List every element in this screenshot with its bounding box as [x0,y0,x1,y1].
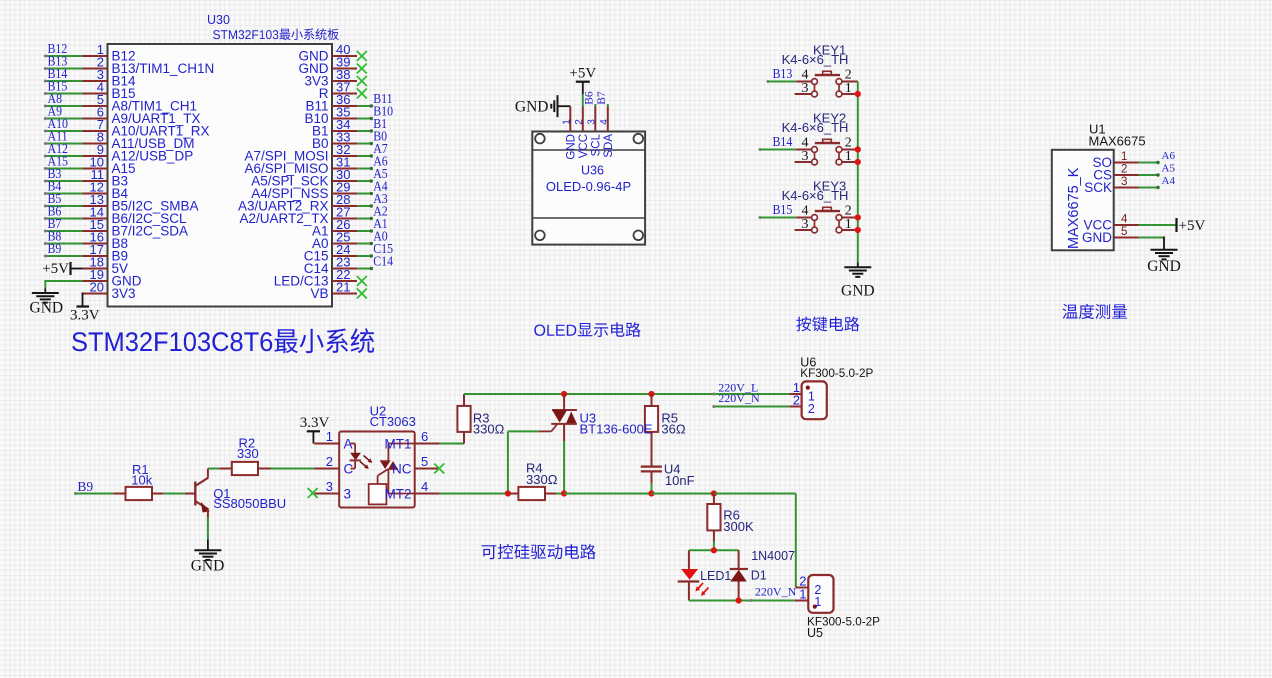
svg-text:3V3: 3V3 [112,286,136,301]
junction at R5 [648,391,654,397]
wire junction on key bus [855,227,861,233]
U30 pin 5 A8/TIM1_CH1 with net label A8 [44,90,197,113]
svg-text:VB: VB [310,286,328,301]
svg-text:3: 3 [802,149,809,164]
U30 pin 10 A15 with net label A15 [44,152,136,175]
U30 pin 26 A1 net label A1 [312,215,388,238]
junction D1 bottom [736,597,742,603]
opto-triac U2 CT3063 body [339,404,416,508]
svg-text:+5V: +5V [569,66,596,82]
svg-text:1: 1 [845,81,852,96]
svg-text:OLED-0.96-4P: OLED-0.96-4P [546,179,631,194]
key common wire to ground [844,82,871,277]
svg-text:3: 3 [344,486,352,501]
pushbutton KEY3 K4-6x6_TH [782,179,858,233]
junction R6 top [711,490,717,496]
section title 可控硅驱动电路 [482,544,596,559]
U36 pin 4 SDA [599,106,615,157]
schematic title STM32F103C8T6最小系统 [72,328,374,353]
svg-text:2: 2 [326,454,333,469]
U5 pin 1 stub [795,586,809,601]
LED LED1 [678,550,732,600]
U30 pin 12 B4 with net label B4 [44,177,129,200]
U36 pin 1 GND [561,106,577,159]
U2 internal triac and zero-cross box [369,444,415,505]
svg-text:MT1: MT1 [385,436,412,451]
U6 pin 2 net 220V_N [712,391,801,408]
net label B6 at U36 pin 3 [583,91,595,106]
U30 pin 20 3V3 with 3.3V power bar [70,280,136,324]
svg-text:D1: D1 [751,569,767,583]
U1 pin 1 SO net label A6 [1092,150,1175,170]
svg-text:KF300-5.0-2P: KF300-5.0-2P [800,366,873,380]
svg-text:330Ω: 330Ω [473,421,505,436]
section title 温度测量 [1062,304,1127,319]
svg-text:1: 1 [845,149,852,164]
U30 pin 8 A11/USB_DM with net label A11 [44,127,195,150]
svg-text:2: 2 [808,402,815,416]
svg-text:5: 5 [1121,226,1127,238]
svg-text:SS8050BBU: SS8050BBU [213,496,286,511]
junction U4 bottom [648,490,654,496]
wire main rail to U5 pin 2 [714,494,796,588]
diode D1 1N4007 [730,549,795,600]
U2 pin 2 C [314,454,353,476]
U30 pin 32 A7/SPI_MOSI net label A7 [244,140,388,163]
svg-text:A5: A5 [1162,163,1176,175]
svg-text:330: 330 [237,446,259,461]
svg-text:2: 2 [793,393,800,408]
svg-text:LED1: LED1 [700,569,731,583]
U30 pin 19 GND wire and ground symbol [30,267,142,317]
svg-text:3: 3 [326,479,333,494]
U30 pin 34 B1 net label B1 [312,115,387,138]
junction R4 right / U3 [561,490,567,496]
U30 pin 2 B13/TIM1_CH1N with net label B13 [44,52,214,75]
resistor R2 330 [208,436,314,476]
3.3V power port [300,415,330,444]
svg-text:4: 4 [421,479,428,494]
pushbutton KEY2 K4-6x6_TH [782,111,858,165]
svg-text:A6: A6 [1162,150,1176,162]
svg-text:36Ω: 36Ω [661,421,685,436]
svg-text:NC: NC [392,461,412,476]
U30 pin 40 GND no-connect [299,42,367,63]
svg-text:220V_N: 220V_N [755,584,797,598]
U5 pin 2 stub [796,573,809,588]
capacitor U4 10nF [641,461,695,493]
svg-text:GND: GND [1147,258,1181,275]
wire LED top rail [689,549,739,551]
svg-text:C: C [344,461,354,476]
resistor R3 330Ω [457,394,504,444]
junction R6 bottom [711,547,717,553]
svg-text:+5V: +5V [1179,218,1206,234]
svg-text:B13: B13 [773,65,793,81]
U36 pin 3 SCL [586,106,602,156]
net label B13 wire to KEY1 [767,65,797,83]
U30 component name STM32F103最小系统板 [213,28,339,40]
U2 pin 1 A [314,429,352,451]
svg-text:1: 1 [1121,151,1127,163]
U30 pin 16 B8 with net label B8 [44,227,128,250]
wire junction on key bus [855,146,861,152]
svg-text:+5V: +5V [42,261,69,277]
svg-text:1: 1 [326,429,333,444]
net label B14 wire to KEY2 [759,133,797,151]
Q1 emitter ground [191,518,225,575]
U2 pin 6 MT1 [385,429,440,451]
U30 pin 29 A4/SPI_NSS net label A4 [251,178,388,201]
svg-text:MAX6675: MAX6675 [1089,134,1146,149]
U2 pin 3 no-connect [308,479,351,501]
svg-text:B15: B15 [773,201,793,217]
U30 pin 7 A10/UART1_RX with net label A10 [44,115,210,138]
wire U2 MT1 to R3 [440,443,464,445]
svg-text:B7: B7 [596,91,608,105]
U30 pin 6 A9/UART1_TX with net label A9 [44,102,201,125]
U30 pin 22 LED/C13 no-connect [274,267,367,288]
svg-text:10nF: 10nF [665,473,695,488]
junction at R3/U3 [561,391,567,397]
U30 pin 38 3V3 no-connect [304,67,366,88]
U30 pin 39 GND no-connect [299,55,367,76]
resistor R6 300K [707,494,754,551]
svg-text:GND: GND [515,99,549,116]
svg-text:B14: B14 [773,133,793,149]
svg-text:GND: GND [566,134,578,160]
U30 pin 31 A6/SPI_MISO net label A6 [244,153,388,176]
U30 pin 4 B15 with net label B15 [44,77,136,100]
svg-text:SCK: SCK [1084,180,1112,195]
svg-text:300K: 300K [723,519,754,534]
wire 220V_L rail [464,393,789,395]
U1 pin 2 CS net label A5 [1093,163,1175,183]
svg-text:B9: B9 [48,240,62,256]
section title 按键电路 [796,317,859,332]
U30 pin 35 B10 net label B10 [304,103,393,126]
net label B9 wire [74,479,113,495]
U30 pin 9 A12/USB_DP with net label A12 [44,140,193,163]
svg-text:10k: 10k [131,472,152,487]
wire main rail to U4 node [564,493,651,495]
resistor R5 36Ω [645,394,686,466]
U2 pin 4 MT2 [385,479,440,501]
section title OLED显示电路 [534,322,640,337]
U30 pin 25 A0 net label A0 [312,228,388,251]
U30 pin 23 C14 net label C14 [304,253,394,276]
wire junction on key bus [855,91,861,97]
U30 pin 33 B0 net label B0 [312,128,387,151]
svg-text:1N4007: 1N4007 [751,549,795,563]
svg-text:2: 2 [1121,164,1127,176]
svg-text:20: 20 [90,280,104,295]
wire U2 MT2 main rail [440,493,508,495]
net anchor dot [750,599,753,602]
U30 pin 24 C15 net label C15 [304,240,393,263]
svg-text:3: 3 [802,81,809,96]
U1 pin 4 VCC with +5V power port [1083,214,1205,235]
U30 pin 13 B5/I2C_SMBA with net label B5 [44,190,199,213]
svg-text:3: 3 [802,217,809,232]
U30 pin 1 B12 with net label B12 [44,40,136,63]
U2 internal LED [350,444,373,470]
U2 pin 5 NC no-connect [392,454,444,476]
U30 pin 14 B6/I2C_SCL with net label B6 [44,202,187,225]
svg-text:MAX6675_K: MAX6675_K [1066,167,1082,249]
triac U3 BT136-600E [539,394,653,494]
svg-text:6: 6 [421,429,428,444]
wire U4 node to R6 node [652,493,714,495]
U30 pin 21 VB no-connect [310,280,366,301]
svg-text:BT136-600E: BT136-600E [580,421,653,436]
wire junction on key bus [855,159,861,165]
svg-text:VCC: VCC [578,134,590,158]
svg-text:21: 21 [336,280,350,295]
U30 pin 18 5V with +5V power port [42,255,128,278]
U30 pin 28 A3/UART2_RX net label A3 [238,190,388,213]
GND power port at U36 pin 1 [515,95,570,117]
U1 pin 5 GND wire and ground symbol [1082,226,1181,275]
connector U6 KF300-5.0-2P body [800,356,873,420]
U1 pin 3 SCK net label A4 [1084,175,1175,195]
connector U5 KF300-5.0-2P body [807,575,880,640]
wire LED bottom rail [689,600,795,602]
svg-text:C14: C14 [373,253,393,269]
OLED module U36 body [532,132,645,245]
resistor R1 10k [113,462,185,500]
svg-text:4: 4 [599,119,610,125]
resistor R4 330Ω [508,460,564,500]
U30 pin 36 B11 net label B11 [305,90,392,113]
svg-text:B6: B6 [583,91,595,105]
U30 pin 3 B14 with net label B14 [44,65,136,88]
junction R4 left [505,490,511,496]
svg-text:U36: U36 [581,164,604,178]
svg-text:GND: GND [30,300,64,317]
U30 pin 17 B9 with net label B9 [44,240,128,263]
thermocouple interface U1 MAX6675 body [1052,122,1146,251]
U30 pin 37 R no-connect [319,80,367,101]
svg-text:3: 3 [586,119,597,125]
svg-text:K4-6×6_TH: K4-6×6_TH [782,52,849,67]
svg-text:A4: A4 [1162,175,1176,187]
svg-text:1: 1 [799,586,806,601]
op-amp U30 body (STM32F103 minimal system board) [108,13,333,307]
svg-text:5: 5 [421,454,428,469]
U30 pin 30 A5/SPI_SCK net label A5 [251,165,388,188]
svg-text:A: A [344,436,353,451]
svg-text:B9: B9 [77,479,93,494]
svg-text:CT3063: CT3063 [370,414,416,429]
U30 pin 11 B3 with net label B3 [44,165,128,188]
net label B15 wire to KEY3 [759,201,797,219]
svg-text:SDA: SDA [603,134,615,158]
svg-text:GND: GND [191,558,225,575]
svg-text:1: 1 [814,595,821,609]
wire U3 gate to R4 node [508,431,539,493]
svg-text:1: 1 [845,217,852,232]
svg-text:220V_N: 220V_N [718,391,760,405]
svg-text:U30: U30 [207,13,230,27]
U6 pin 1 net 220V_L [712,380,801,396]
wire junction on key bus [855,214,861,220]
svg-text:2: 2 [574,119,585,125]
svg-text:K4-6×6_TH: K4-6×6_TH [782,120,849,135]
svg-text:U5: U5 [807,626,823,640]
U36 pin 2 VCC [574,106,590,158]
svg-text:3.3V: 3.3V [70,308,100,324]
svg-text:MT2: MT2 [385,486,412,501]
U30 pin 15 B7/I2C_SDA with net label B7 [44,215,188,238]
svg-text:SCL: SCL [591,133,603,156]
svg-text:330Ω: 330Ω [526,472,558,487]
U30 pin 27 A2/UART2_TX net label A2 [239,203,387,226]
svg-text:GND: GND [1082,230,1112,245]
svg-text:GND: GND [841,283,875,300]
pushbutton KEY1 K4-6x6_TH [782,43,858,97]
transistor Q1 SS8050BBU [185,469,286,518]
+5V power port at U36 pin 2 [569,66,596,107]
svg-text:3: 3 [1121,176,1127,188]
net label B7 at U36 pin 4 [596,91,608,106]
svg-text:K4-6×6_TH: K4-6×6_TH [782,188,849,203]
svg-text:1: 1 [561,119,572,125]
svg-text:4: 4 [1121,214,1128,226]
